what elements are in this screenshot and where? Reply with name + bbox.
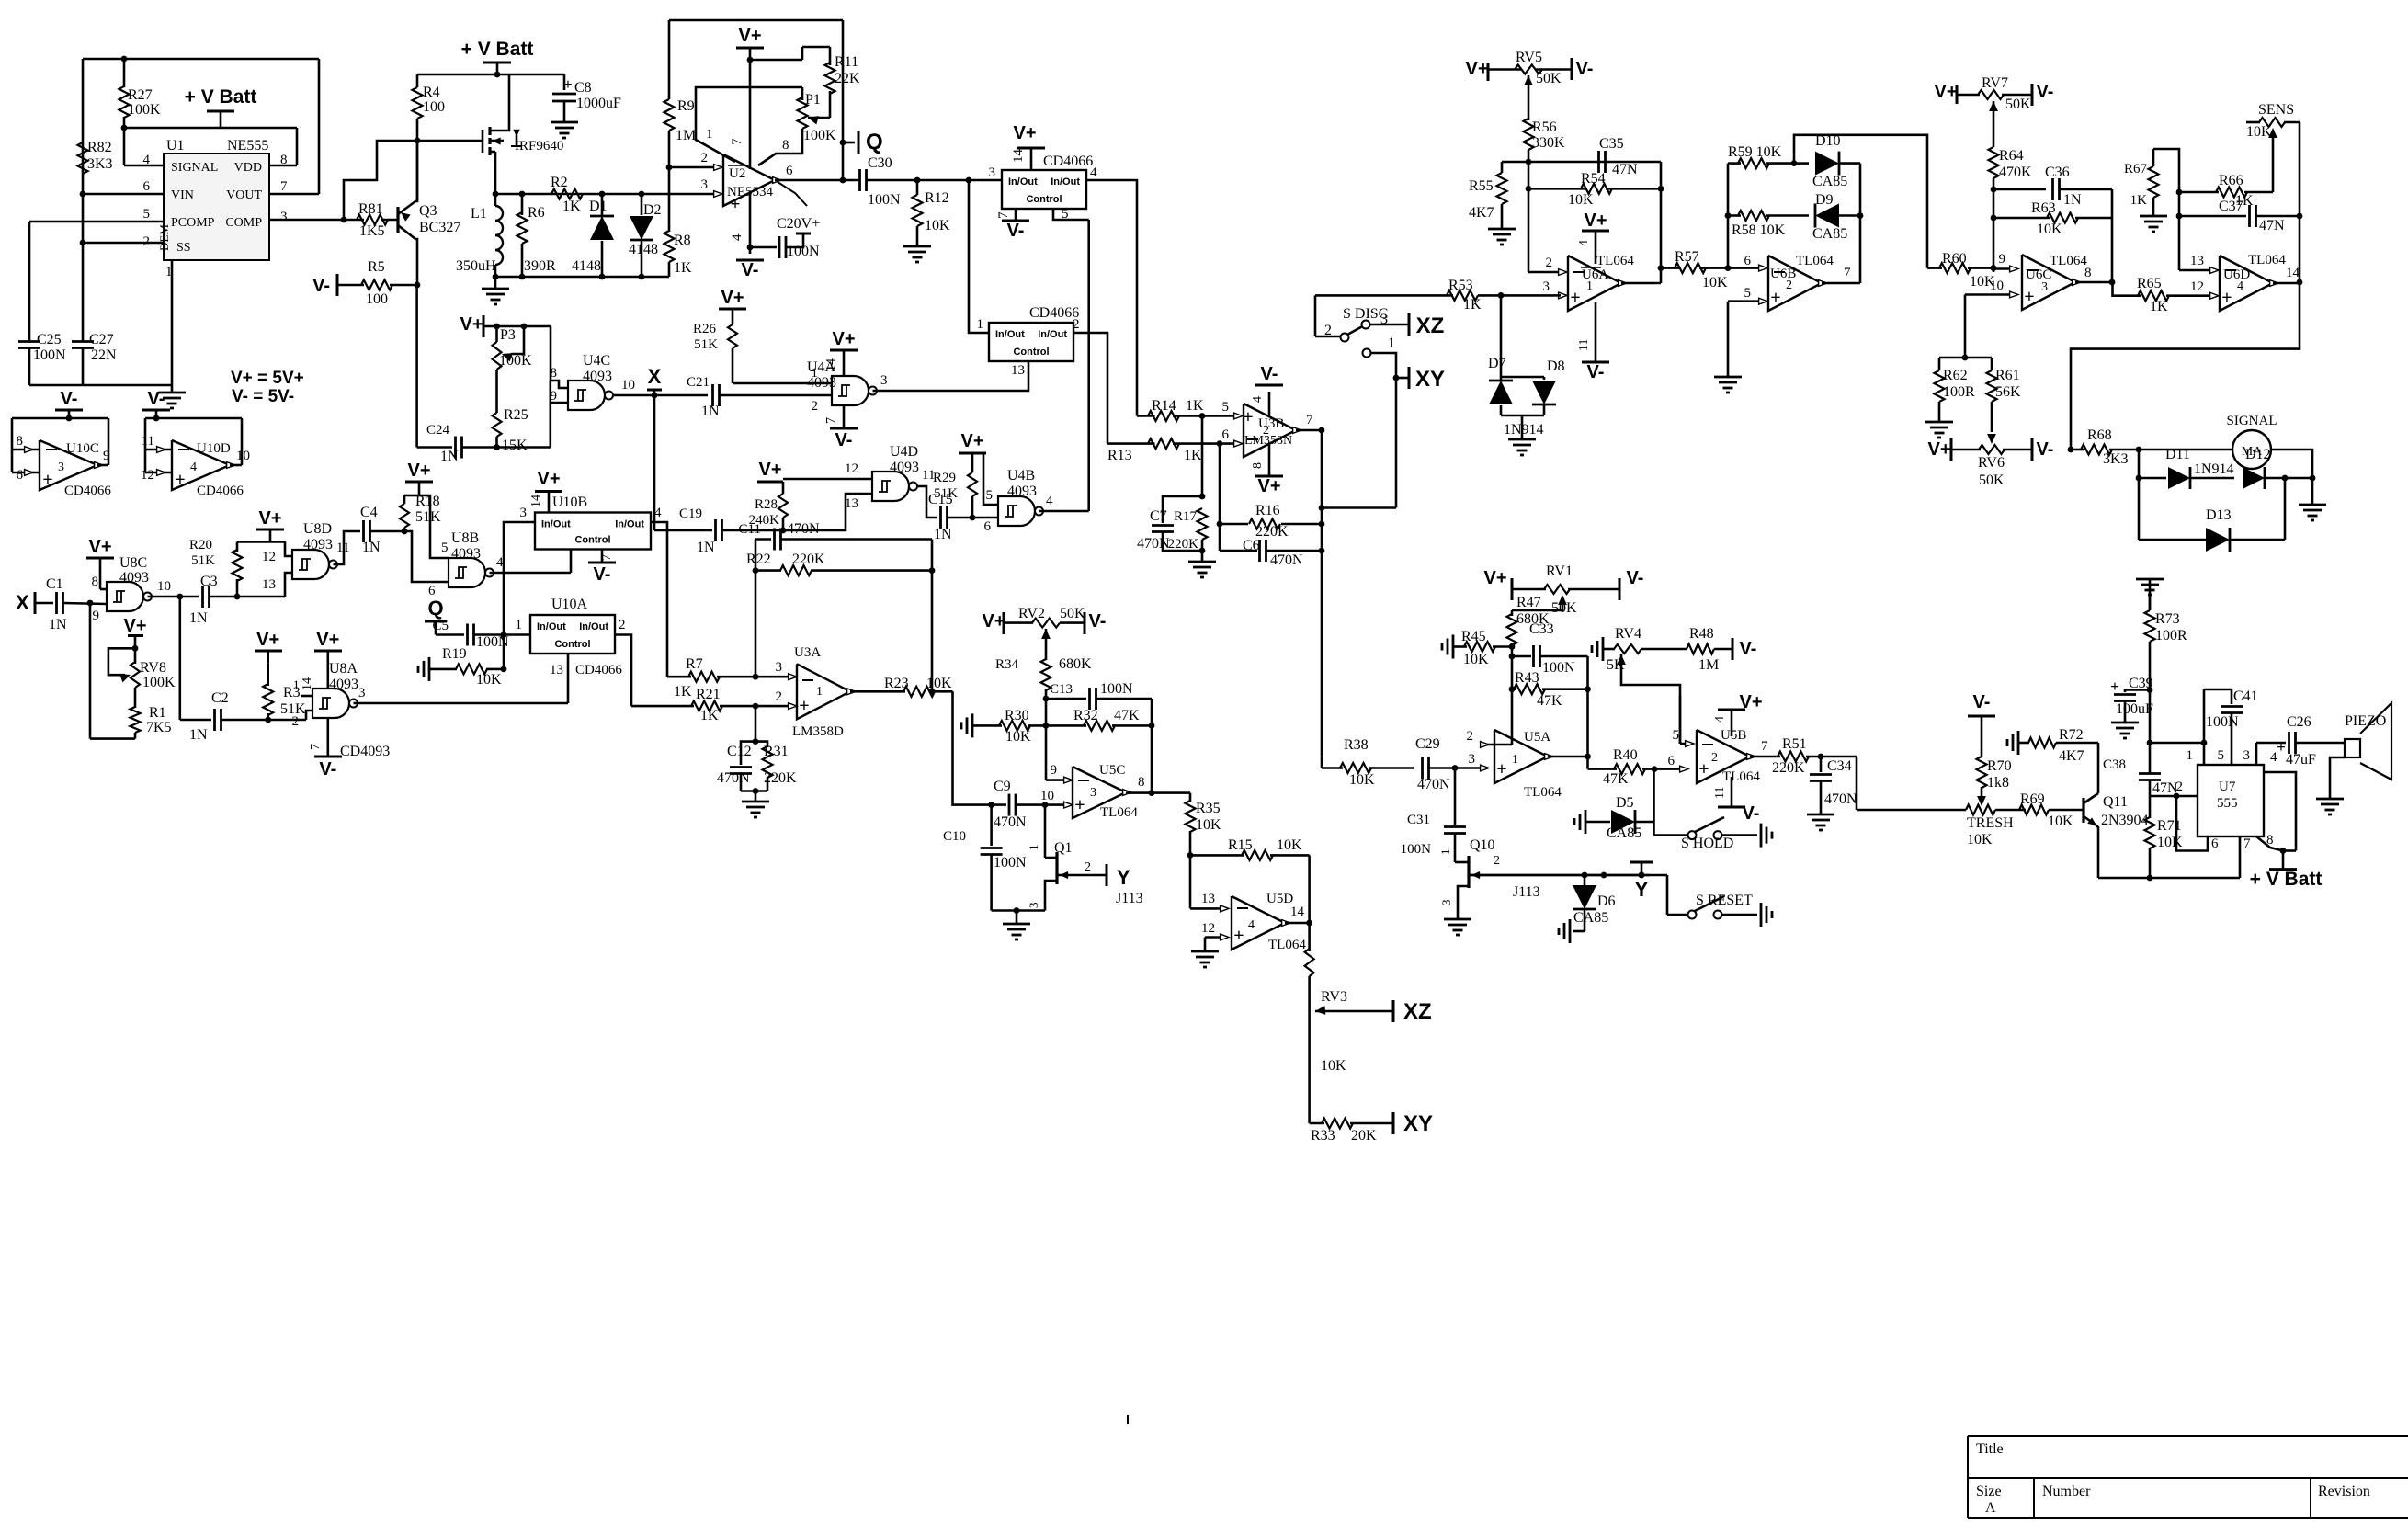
svg-text:TRESH: TRESH: [1967, 815, 2014, 831]
svg-text:6: 6: [143, 179, 151, 194]
resistor R30: [971, 713, 974, 737]
svg-text:R38: R38: [1344, 737, 1369, 753]
wire Y line: [1471, 874, 1667, 877]
svg-text:100N: 100N: [994, 855, 1027, 871]
resistor R45: [1452, 635, 1455, 659]
wire U1 pin8: [269, 165, 297, 167]
wire U4A pin7 V-: [843, 405, 846, 428]
svg-text:V-: V-: [1973, 692, 1991, 712]
svg-text:10K: 10K: [1702, 275, 1728, 290]
svg-text:+: +: [731, 195, 741, 214]
resistor R53: [1447, 290, 1478, 301]
diode D13: [2139, 539, 2206, 541]
opamp U3A: [797, 664, 850, 719]
wire Q11 emitter: [2096, 825, 2098, 878]
svg-text:470N: 470N: [717, 770, 750, 786]
svg-text:1: 1: [1438, 849, 1452, 856]
wire R2 line: [522, 193, 602, 196]
opamp U5A: [1494, 730, 1548, 783]
wire switchA pin7 V-: [1015, 209, 1017, 221]
svg-text:5: 5: [143, 207, 151, 222]
svg-text:2: 2: [1786, 279, 1792, 292]
svg-text:V-: V-: [1740, 639, 1757, 659]
resistor R69: [2019, 805, 2049, 815]
svg-text:U8A: U8A: [329, 661, 358, 677]
svg-text:V+: V+: [738, 26, 761, 46]
svg-text:R82: R82: [87, 140, 112, 155]
svg-text:R16: R16: [1255, 503, 1280, 518]
ground R67: [2140, 215, 2167, 218]
wire switchA out pin4: [1086, 180, 1137, 416]
svg-text:XZ: XZ: [1416, 313, 1445, 338]
svg-text:TL064: TL064: [1596, 254, 1634, 268]
wire U8A out: [354, 702, 569, 705]
wire U5C out: [1126, 791, 1190, 794]
svg-text:680K: 680K: [1059, 656, 1092, 672]
svg-text:Title: Title: [1976, 1441, 2004, 1457]
capacitor C41: [2203, 689, 2206, 743]
svg-text:C26: C26: [2287, 714, 2311, 730]
opamp U5C: [1073, 767, 1126, 818]
svg-text:4093: 4093: [451, 546, 481, 562]
nand U8D: [292, 550, 329, 579]
svg-text:V+: V+: [123, 616, 146, 636]
svg-text:RV2: RV2: [1018, 606, 1045, 621]
svg-text:47N: 47N: [2259, 218, 2285, 233]
pot TRESH: [1857, 809, 1966, 812]
capacitor C1: [55, 592, 58, 614]
wire U5B pin5: [1680, 743, 1687, 745]
svg-text:U8B: U8B: [451, 530, 479, 546]
resistor R66: [2179, 191, 2219, 194]
stray mark: [1127, 1415, 1129, 1424]
svg-text:1K: 1K: [674, 260, 692, 276]
svg-text:Size: Size: [1976, 1484, 2002, 1499]
node divider vertical: [1201, 416, 1204, 497]
pot RV3: [1305, 949, 1314, 976]
svg-text:3K3: 3K3: [2103, 451, 2129, 467]
svg-text:1N: 1N: [701, 404, 720, 419]
svg-text:Control: Control: [1026, 194, 1062, 205]
ic CD4066 switch B: [989, 323, 1073, 361]
svg-text:+: +: [563, 75, 573, 93]
wire Q3 collector to C24: [415, 285, 418, 448]
capacitor C20 100N: [750, 246, 777, 249]
resistor R13: [1107, 442, 1155, 445]
svg-text:4093: 4093: [807, 375, 836, 391]
svg-text:Control: Control: [1013, 347, 1049, 358]
wire R2 to pin3: [669, 193, 716, 196]
jfet Q10 J113: [1455, 861, 1469, 864]
opamp U6A: [1568, 256, 1621, 311]
nand U8B: [449, 558, 485, 587]
nand U4B: [998, 496, 1035, 526]
resistor R16: [1220, 523, 1248, 526]
svg-text:2: 2: [701, 151, 709, 165]
svg-text:2: 2: [619, 618, 626, 632]
svg-text:J113: J113: [1116, 891, 1143, 906]
svg-text:V+: V+: [960, 431, 983, 451]
svg-text:7: 7: [600, 554, 614, 561]
svg-text:R48: R48: [1689, 626, 1714, 642]
wire U5D pin13: [1190, 907, 1222, 910]
svg-text:V-: V-: [2037, 82, 2054, 102]
ic U10A: [530, 615, 615, 654]
svg-text:V-: V-: [1627, 568, 1644, 588]
resistor R65: [2113, 282, 2141, 296]
capacitor C7: [1163, 496, 1202, 523]
svg-text:LM358D: LM358D: [792, 724, 844, 739]
wire U4C out: [611, 394, 655, 397]
svg-text:470K: 470K: [1999, 165, 2032, 180]
resistor R28: [782, 482, 785, 494]
diode D7: [1500, 377, 1503, 380]
opamp U10D: [172, 440, 230, 490]
svg-text:+: +: [1698, 759, 1709, 780]
terminal Y (Q1): [1106, 864, 1108, 886]
svg-text:In/Out: In/Out: [541, 519, 571, 530]
svg-text:R34: R34: [995, 657, 1019, 672]
wire U6A node line: [1502, 161, 1661, 164]
svg-text:TL064: TL064: [1100, 805, 1138, 820]
svg-text:R31: R31: [764, 744, 789, 759]
opamp U6D: [2220, 256, 2273, 311]
svg-text:R4: R4: [423, 85, 440, 100]
svg-text:C29: C29: [1415, 736, 1440, 752]
wire U4C pin9: [551, 402, 568, 404]
svg-text:C1: C1: [46, 576, 63, 592]
svg-text:R53: R53: [1448, 278, 1473, 293]
wire U6C fb vertical: [2111, 189, 2114, 282]
wire U1 pin6: [83, 193, 164, 196]
svg-text:10K: 10K: [1005, 729, 1031, 745]
svg-text:R6: R6: [528, 205, 545, 221]
svg-text:20K: 20K: [1351, 1128, 1377, 1144]
svg-text:100N: 100N: [1542, 660, 1575, 676]
svg-text:R64: R64: [1999, 148, 2024, 164]
svg-text:V-: V-: [2037, 439, 2054, 460]
ground L1: [494, 277, 497, 289]
svg-text:R57: R57: [1675, 249, 1699, 265]
svg-text:1M: 1M: [676, 128, 696, 143]
wire XY to U3B out: [1322, 506, 1396, 509]
wire U3B out: [1296, 429, 1322, 432]
wire U10C pins: [12, 417, 108, 420]
svg-text:NE555: NE555: [227, 138, 268, 154]
svg-text:3: 3: [358, 686, 366, 700]
svg-text:R23: R23: [884, 676, 909, 691]
capacitor C34: [1820, 757, 1823, 772]
svg-text:5: 5: [1222, 400, 1230, 415]
ground U1: [158, 392, 186, 394]
resistor R40: [1588, 768, 1618, 770]
svg-text:R33: R33: [1311, 1128, 1335, 1144]
svg-text:R45: R45: [1461, 629, 1486, 644]
wire Q3 emitter: [415, 141, 417, 201]
svg-text:1N: 1N: [934, 527, 952, 542]
svg-text:PCOMP: PCOMP: [171, 216, 215, 230]
svg-text:CA85: CA85: [1812, 226, 1847, 242]
svg-text:470N: 470N: [1417, 777, 1450, 792]
wire R51 down to tresh: [1856, 757, 1858, 810]
resistor R8: [668, 194, 671, 232]
wire VDD rail: [124, 127, 297, 130]
svg-text:5: 5: [441, 541, 449, 555]
svg-text:3: 3: [989, 165, 996, 180]
wire U4B out: [1039, 510, 1089, 513]
wire C10 bottom: [992, 909, 1045, 912]
wire U5B out: [1750, 756, 1780, 758]
svg-text:330K: 330K: [1532, 135, 1565, 151]
svg-text:C3: C3: [200, 574, 218, 589]
svg-text:8: 8: [2266, 833, 2274, 848]
svg-text:+: +: [799, 696, 809, 716]
svg-text:U3A: U3A: [794, 645, 821, 660]
capacitor C4: [362, 520, 365, 542]
wire U10B pin3: [504, 522, 535, 635]
svg-text:V+: V+: [1739, 692, 1762, 712]
svg-text:R12: R12: [925, 190, 949, 206]
ground Q10: [1444, 918, 1471, 921]
wire U6B pin6: [1728, 267, 1761, 269]
svg-text:7: 7: [996, 211, 1011, 219]
capacitor C19: [654, 529, 712, 532]
pot P1 100K: [798, 97, 808, 129]
svg-text:C25: C25: [37, 332, 62, 347]
svg-text:6: 6: [1222, 427, 1230, 442]
titleblock: [1968, 1435, 2408, 1437]
svg-text:R8: R8: [674, 233, 691, 248]
wire U8A pin1: [301, 695, 312, 698]
resistor R19: [428, 657, 431, 681]
resistor R58: [1728, 214, 1741, 217]
svg-text:RV3: RV3: [1321, 989, 1347, 1005]
svg-text:1K: 1K: [1184, 448, 1202, 463]
svg-text:22K: 22K: [835, 71, 860, 86]
svg-text:R40: R40: [1613, 747, 1638, 763]
svg-text:470N: 470N: [787, 521, 820, 537]
wire sdisc feed: [1315, 294, 1453, 297]
wire U6C pin10: [1965, 293, 2009, 296]
wire U5A pin2: [1482, 744, 1512, 746]
svg-text:D8: D8: [1547, 358, 1565, 374]
svg-text:R61: R61: [1995, 368, 2020, 383]
svg-text:Control: Control: [574, 535, 610, 546]
svg-text:100R: 100R: [1943, 384, 1975, 400]
capacitor C38: [2139, 772, 2161, 775]
resistor R25: [495, 370, 498, 413]
svg-text:R13: R13: [1107, 448, 1132, 463]
svg-text:X: X: [16, 591, 29, 614]
svg-text:Control: Control: [554, 639, 590, 650]
svg-text:5: 5: [2218, 748, 2225, 763]
opamp U3B: [1244, 404, 1296, 457]
svg-text:V-: V-: [1007, 221, 1025, 241]
svg-text:2: 2: [2176, 780, 2184, 794]
svg-text:47K: 47K: [1114, 708, 1140, 723]
ground R62: [1925, 421, 1953, 424]
nand U8C: [107, 582, 143, 611]
wire pin2 node down: [755, 706, 757, 742]
resistor R5: [336, 274, 339, 296]
wire rail to R8: [642, 276, 669, 279]
svg-text:13: 13: [2190, 254, 2204, 268]
svg-text:1000uF: 1000uF: [576, 96, 621, 111]
svg-text:U5B: U5B: [1721, 728, 1746, 743]
svg-text:470N: 470N: [1137, 536, 1170, 552]
diode D1 4148: [601, 194, 604, 215]
opamp U10C: [40, 440, 97, 490]
svg-text:1M: 1M: [1698, 657, 1719, 673]
resistor R22: [755, 569, 781, 572]
capacitor C26: [2288, 732, 2290, 754]
svg-text:V+: V+: [1465, 59, 1488, 79]
ground above R73: [2136, 578, 2164, 581]
svg-text:4093: 4093: [583, 369, 612, 384]
svg-text:V+: V+: [1934, 82, 1957, 102]
wire U10B pin4 out: [651, 522, 667, 677]
wire X node loop: [89, 603, 92, 739]
svg-text:R43: R43: [1515, 670, 1539, 686]
svg-text:14: 14: [1011, 149, 1026, 164]
svg-text:R63: R63: [2031, 200, 2056, 216]
svg-text:TL064: TL064: [1524, 785, 1562, 800]
svg-text:47K: 47K: [1537, 693, 1562, 709]
resistor R68: [2071, 449, 2084, 451]
wire U6B out: [1822, 282, 1860, 285]
svg-text:V+: V+: [407, 461, 430, 481]
svg-text:4093: 4093: [119, 570, 149, 586]
wire U5D pin12: [1205, 936, 1222, 939]
svg-text:5: 5: [1673, 728, 1680, 743]
ground C10: [1016, 911, 1018, 925]
svg-text:+: +: [2024, 287, 2034, 307]
svg-text:D6: D6: [1597, 893, 1616, 909]
wire U8A out to U10A control: [567, 654, 570, 703]
svg-text:100N: 100N: [868, 192, 901, 208]
svg-text:4148: 4148: [572, 258, 601, 274]
svg-text:6: 6: [786, 164, 793, 178]
wire U7 pin6: [2176, 796, 2208, 851]
terminal Q: [840, 140, 846, 146]
capacitor C27: [72, 340, 94, 343]
resistor R33: [1310, 1122, 1324, 1125]
svg-text:4093: 4093: [303, 537, 333, 552]
wire pin4 V-: [749, 191, 752, 254]
wire D9 node down: [1859, 216, 1862, 284]
svg-text:R29: R29: [933, 471, 956, 485]
svg-text:22N: 22N: [91, 347, 117, 363]
svg-text:100N: 100N: [1100, 681, 1133, 697]
svg-text:14: 14: [301, 677, 314, 690]
svg-text:V-: V-: [835, 430, 853, 450]
wire U7 pin8: [2256, 836, 2283, 851]
svg-text:50K: 50K: [1536, 71, 1562, 86]
svg-text:14: 14: [529, 495, 543, 507]
terminal XZ (RV3): [1392, 1000, 1395, 1022]
svg-text:R35: R35: [1196, 801, 1221, 816]
capacitor C2 body: [180, 719, 211, 722]
wire diode clamp: [1500, 295, 1503, 377]
svg-text:XZ: XZ: [1403, 999, 1432, 1024]
svg-text:51K: 51K: [694, 337, 718, 352]
svg-text:CD4093: CD4093: [340, 744, 390, 759]
svg-text:C38: C38: [2103, 757, 2126, 772]
wire U6D out: [2273, 282, 2300, 285]
svg-text:R67: R67: [2124, 162, 2148, 176]
svg-text:4: 4: [1713, 716, 1727, 723]
svg-text:9: 9: [103, 449, 110, 463]
wire U6C pin9: [1993, 267, 2009, 270]
capacitor C35: [1597, 151, 1600, 173]
resistor R38: [1322, 767, 1343, 769]
svg-text:R32: R32: [1073, 708, 1098, 723]
wire U6A pin4 V+: [1595, 231, 1597, 264]
wire gate drive: [344, 141, 482, 220]
wire RV3 vertical: [1308, 855, 1311, 951]
svg-text:R71: R71: [2157, 818, 2182, 834]
wire P1 top feed: [750, 59, 802, 62]
resistor R31: [755, 742, 767, 747]
wire Q11 collector: [2097, 743, 2100, 793]
wire U10D pins: [145, 417, 242, 420]
svg-text:R56: R56: [1532, 119, 1557, 135]
svg-text:1N: 1N: [189, 727, 208, 743]
svg-text:In/Out: In/Out: [995, 329, 1025, 340]
svg-text:C9: C9: [994, 779, 1011, 794]
wire U4A out: [873, 390, 917, 393]
svg-text:4: 4: [1577, 240, 1591, 246]
diode D5: [1585, 810, 1587, 834]
diode D11: [2139, 477, 2166, 480]
wire C4 to pin6: [404, 531, 449, 582]
svg-text:CA85: CA85: [1573, 910, 1608, 926]
opamp U2 NE5534: [723, 154, 775, 206]
wire pin2 node: [669, 166, 716, 169]
svg-text:D11: D11: [2165, 447, 2190, 462]
svg-text:100K: 100K: [142, 675, 176, 690]
resistor R32: [1046, 724, 1086, 727]
svg-text:RV6: RV6: [1978, 455, 2005, 471]
svg-text:J113: J113: [1513, 884, 1540, 900]
opamp U5B: [1697, 730, 1750, 783]
svg-text:R62: R62: [1943, 368, 1968, 383]
wire C11R22 left vert: [755, 540, 757, 677]
svg-text:D2: D2: [643, 202, 662, 218]
wire switchB out: [1073, 333, 1107, 444]
svg-text:R58 10K: R58 10K: [1732, 222, 1786, 238]
svg-text:1N: 1N: [697, 540, 715, 555]
svg-text:C13: C13: [1050, 682, 1073, 697]
svg-text:Q: Q: [427, 597, 443, 620]
svg-text:U2: U2: [729, 166, 745, 181]
resistor R62 R61 node: [1939, 357, 1992, 359]
svg-text:In/Out: In/Out: [1051, 176, 1080, 188]
svg-text:1N: 1N: [362, 540, 381, 555]
resistor R1: [131, 707, 141, 733]
wire R23 corner down: [953, 691, 992, 804]
svg-text:R59 10K: R59 10K: [1728, 144, 1782, 160]
svg-text:U10C: U10C: [66, 441, 99, 456]
wire U6C out: [2075, 281, 2113, 284]
svg-text:V+: V+: [832, 329, 855, 349]
svg-text:47uF: 47uF: [2286, 752, 2316, 768]
svg-text:220K: 220K: [764, 770, 797, 786]
wire C15 to pin6: [997, 517, 1000, 519]
svg-text:3: 3: [2243, 748, 2251, 763]
svg-text:C27: C27: [89, 332, 114, 347]
diode D12: [2243, 467, 2265, 489]
